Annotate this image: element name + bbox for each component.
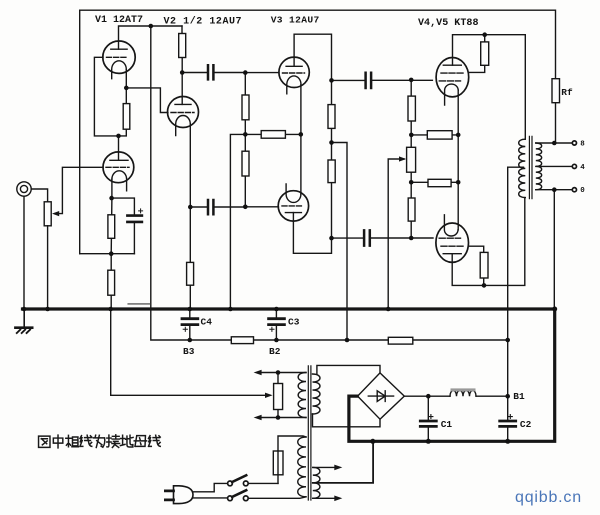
capacitor C1 (reservoir) <box>427 396 429 441</box>
arrowhead: heater 2 bottom <box>334 496 342 502</box>
capacitor C4 (B3 filter, electrolytic) <box>189 309 191 340</box>
wire: V4 screen lead and screen resistor leads <box>468 35 485 73</box>
wire: bridge + output to B1 <box>404 395 507 397</box>
output transformer T1 primary winding <box>519 139 526 197</box>
arrowhead: hum pot wiper <box>265 393 273 398</box>
capacitor C3 (B2 filter, electrolytic) <box>275 309 277 340</box>
power transformer T2 core <box>308 366 311 500</box>
wire: B1 riser (primary CT down to reservoir) <box>507 167 509 441</box>
note: Chinese caption "thick line is ground bus" drawn as strokes <box>39 435 161 448</box>
wire: heater 2 bottom lead <box>313 497 337 499</box>
capacitor C (coupling V2 cathode to V3 lower grid) <box>190 206 278 208</box>
wire: V4 plate up and right to output transformer primary top <box>453 35 526 140</box>
svg-text:V2 1/2 12AU7: V2 1/2 12AU7 <box>164 15 243 27</box>
wire: heater 2 top lead <box>313 466 337 468</box>
wire: V2 plate resistor top lead <box>181 26 183 34</box>
wire: V3 B+ feed riser to B2 line <box>332 143 348 341</box>
wire: top B+ rail V1/V2 <box>119 26 183 49</box>
wire: primary center tap to B1 riser <box>508 166 524 168</box>
tube V1a (upper half 12AT7) <box>103 41 135 79</box>
svg-text:C2: C2 <box>520 419 532 430</box>
capacitor: V1b cathode bypass (electrolytic) <box>127 216 141 222</box>
tube V5 (KT88 lower, inverted) <box>436 215 469 263</box>
resistor V1a cathode <box>123 104 130 130</box>
svg-text:V4,V5 KT88: V4,V5 KT88 <box>418 18 479 29</box>
wire: 0 ohm tap down to ground bus tee <box>553 190 555 309</box>
bridge rectifier D1 <box>358 373 405 419</box>
plus sign of bypass cap <box>139 209 143 213</box>
resistor V3 cathode bias (horizontal) <box>261 131 285 139</box>
wire: fuse bottom to switch <box>249 482 279 484</box>
potentiometer: hum balance <box>277 373 279 418</box>
resistor Rf (feedback) <box>555 103 557 143</box>
output transformer T1 core <box>529 136 532 198</box>
arrowhead: balance pot wiper <box>399 156 406 161</box>
tube V4 (KT88 upper) <box>436 57 469 105</box>
wire: heater 2 center tap to B- rail <box>313 441 373 483</box>
svg-text:B2: B2 <box>269 346 281 357</box>
power transformer heater winding 2 (with arrows) <box>313 467 320 498</box>
choke L1 <box>450 391 476 397</box>
terminal: 0 ohm <box>572 188 576 192</box>
wire: HV top to bridge top corner <box>317 365 380 373</box>
tube V2 (1/2 12AU7 concertina) <box>168 97 199 136</box>
resistor B1-B2 dropping (horizontal on B line) <box>388 337 413 344</box>
arrowhead: volume pot wiper <box>52 211 59 216</box>
wire: secondary tap 8 ohm <box>536 142 572 144</box>
resistor V4 screen <box>481 42 489 65</box>
wire: V1a grid to SRPP node <box>94 57 118 136</box>
wire: KT88 grid chain <box>410 80 412 238</box>
fuse F1 <box>277 451 279 483</box>
svg-text:Rf: Rf <box>561 87 573 98</box>
svg-text:V3 12AU7: V3 12AU7 <box>271 15 320 26</box>
svg-text:V1 12AT7: V1 12AT7 <box>95 15 143 26</box>
resistor V3 plate load upper <box>328 105 335 129</box>
resistor V5 screen <box>480 252 488 278</box>
wire: SRPP output to V2 grid <box>126 88 168 113</box>
svg-text:4: 4 <box>580 164 585 172</box>
wire: lower switch to primary bottom <box>249 497 307 498</box>
wire: primary top lead to fuse <box>278 436 306 451</box>
switch S1a upper <box>243 481 248 486</box>
wire: secondary tap 4 ohm <box>536 165 572 167</box>
wire: V5 plate down and right and up to transformer primary bottom <box>452 198 525 286</box>
wire: V1b grid to volume pot wiper <box>55 167 103 213</box>
wire: V3a plate up and over to plate-load chain <box>294 34 331 238</box>
svg-text:B1: B1 <box>513 391 525 402</box>
ground bus (thick) <box>23 307 555 310</box>
arrowhead: heater top left <box>254 370 262 376</box>
wire: V1b cathode node and bypass cap top stub <box>112 179 134 215</box>
capacitor C2 (smoothing) <box>500 421 516 426</box>
resistor KT88 lower grid-return (horizontal) <box>428 179 451 186</box>
power transformer heater winding (to hum pot) <box>298 373 306 418</box>
wire: HV bottom to bridge bottom corner <box>313 414 381 427</box>
wire: jack ground lead <box>23 196 25 309</box>
resistor V2 cathode <box>187 262 194 285</box>
input jack J1 <box>17 182 31 196</box>
terminal: 8 ohm <box>572 141 576 145</box>
svg-text:C4: C4 <box>201 317 213 328</box>
ground bus: B- return (thick) <box>349 309 555 441</box>
wire: V3b plate down and up to chain bottom node <box>293 213 331 254</box>
wire: heater winding bottom lead with arrow <box>260 417 307 419</box>
wire: plug to lower switch <box>193 497 228 499</box>
wire: plug to upper switch <box>193 483 228 491</box>
resistor KT88 grid lower <box>408 198 415 221</box>
wire: balance pot wiper feed to ground bus <box>388 159 404 309</box>
resistor V3 plate load lower <box>328 160 335 183</box>
resistor KT88 upper grid-return (horizontal) <box>427 131 452 139</box>
wire: V2 cathode down through cap node to cathode resistor and bus <box>189 124 191 309</box>
svg-text:0: 0 <box>580 187 585 195</box>
resistor V1b cathode R1 <box>108 215 115 239</box>
svg-text:C1: C1 <box>441 419 453 430</box>
wire: KT88 grid-return resistors (horizontal) leads <box>411 135 458 182</box>
wire: secondary tap 0 ohm <box>536 189 572 191</box>
resistor KT88 grid upper <box>408 96 415 121</box>
wire: V1b cathode resistor chain to ground bus <box>110 198 113 309</box>
wire: V1b plate lead from SRPP node <box>118 136 120 160</box>
terminal: 4 ohm <box>572 164 576 168</box>
wire: V3 upper grid lead <box>245 72 279 74</box>
wire: bypass cap bottom lead <box>133 222 135 254</box>
wire: volume pot bottom to ground bus <box>47 226 49 309</box>
power transformer AC primary winding <box>298 437 306 497</box>
switch S1b lower <box>243 496 248 501</box>
output transformer T1 secondary winding <box>536 143 542 190</box>
potentiometer: volume VR1 <box>44 202 51 226</box>
wire: V3 grid chain mid-tap to ground bus <box>230 134 245 309</box>
resistor V1b cathode R2 (to ground) <box>108 270 115 295</box>
wire: hum pot wiper to ground bus <box>111 309 270 395</box>
wire: heater winding top lead with arrow <box>260 372 307 374</box>
resistor V3 grid upper <box>242 95 249 120</box>
wire: V2 plate lead through node <box>181 34 183 105</box>
wire: V3 cathode bias resistor leads <box>245 133 300 135</box>
resistor V3 grid lower <box>242 151 249 176</box>
wire: V5 screen lead and screen resistor leads <box>468 246 484 285</box>
arrowhead: heater bottom left <box>254 415 262 421</box>
wire: V3 grid divider chain <box>244 73 246 207</box>
wire: feedback node horizontal to bypass cap bottom <box>80 253 135 255</box>
resistor V2 plate load <box>179 34 186 58</box>
resistor B2-B3 dropping (horizontal on B line) <box>231 337 253 344</box>
tube V3a (upper half 12AU7) <box>279 57 309 94</box>
AC plug P1 <box>174 486 194 504</box>
wire: V3 cathode rail (upper cathode to lower cathode) <box>300 85 302 195</box>
potentiometer: KT88 balance pot <box>407 147 416 172</box>
ground symbol <box>23 309 25 327</box>
tube V1b (lower half 12AT7, input) <box>103 152 134 191</box>
power transformer HV secondary winding <box>313 374 321 414</box>
svg-text:qqibb.cn: qqibb.cn <box>515 489 582 506</box>
wire: jack to volume pot top <box>31 189 47 202</box>
tube V3b (lower half 12AU7, inverted) <box>278 184 308 221</box>
capacitor C (coupling V3b plate to V5 grid) <box>332 237 434 239</box>
wire: global feedback line from V1 cathode circuit to Rf <box>80 10 556 254</box>
capacitor C (coupling V2 plate to V3 upper grid) <box>182 72 245 74</box>
wire: KT88 cathode rail V4 to V5 <box>457 90 459 230</box>
svg-text:B3: B3 <box>183 346 195 357</box>
svg-text:C3: C3 <box>288 317 300 328</box>
wire: B3 riser and B3 distribution line <box>151 26 508 340</box>
wire: V1a cathode chain down to SRPP node <box>119 69 127 135</box>
wire: short stub left of B3 riser <box>128 303 150 305</box>
arrowhead: heater 2 top <box>334 465 342 471</box>
choke L1 core bar <box>451 388 476 391</box>
capacitor C (coupling V3a plate to V4 grid) <box>332 79 433 81</box>
svg-text:8: 8 <box>580 140 585 148</box>
